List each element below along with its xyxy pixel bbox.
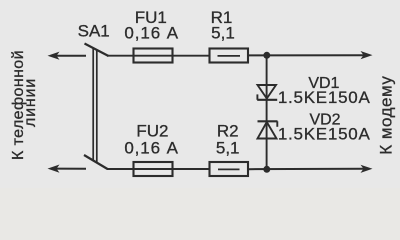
switch SA1 bottom lever [84,155,108,169]
fuse FU1 body [134,49,173,63]
mark inside R1 [218,55,241,57]
wire: top from R1 to modem with arrow [248,51,373,59]
svg-text:0,16 А: 0,16 А [124,24,179,43]
resistor R1 body [210,49,249,63]
switch SA1 mechanical link (double bar) [93,48,97,162]
diode VD1 (zener, cathode down) [257,85,277,100]
mark inside R2 [218,168,240,170]
svg-text:1.5KE150A: 1.5KE150A [278,88,371,107]
wire: bottom from switch through fuse FU2 to R2 [107,168,210,170]
paper background [0,0,400,188]
node junction dot (bottom) [263,166,270,173]
node junction dot (top) [263,52,270,59]
switch SA1 top lever [85,44,109,57]
wire: bottom-left to telephone line with arrow [48,165,87,173]
svg-text:SA1: SA1 [78,22,110,41]
wire: bottom from R2 to modem with arrow [248,165,373,173]
fuse FU2 body [134,162,173,176]
diode VD2 (zener, cathode up) [258,121,278,138]
svg-text:линии: линии [22,78,39,127]
svg-text:К модему: К модему [377,76,396,155]
node: line to telephone (left label) [10,50,39,160]
wire: top-left to telephone line with arrow [48,52,87,60]
svg-text:1.5KE150A: 1.5KE150A [278,125,371,144]
svg-text:0,16 А: 0,16 А [124,138,179,157]
wire: vertical diode branch [266,55,268,169]
wire: top from switch through fuse FU1 to R1 [107,55,210,57]
resistor R2 body [210,162,249,176]
svg-text:5,1: 5,1 [211,24,235,43]
svg-text:5,1: 5,1 [216,138,240,157]
